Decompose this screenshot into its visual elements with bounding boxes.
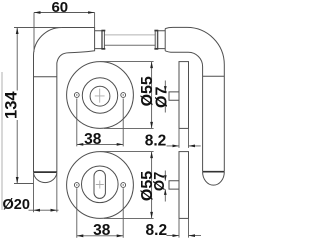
svg-text:38: 38 [93,222,111,239]
svg-text:60: 60 [51,0,68,16]
svg-text:Ø7: Ø7 [153,87,170,108]
svg-text:Ø20: Ø20 [3,197,30,213]
svg-text:8.2: 8.2 [145,132,167,149]
svg-text:8.2: 8.2 [146,222,168,239]
svg-text:38: 38 [84,131,102,148]
svg-text:134: 134 [3,91,21,119]
svg-text:Ø7: Ø7 [152,172,168,191]
